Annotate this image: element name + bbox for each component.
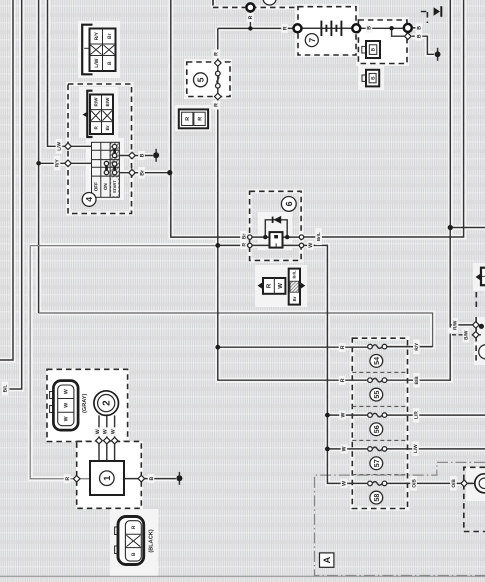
wire: B/B output of fuse 55 rising to top xyxy=(387,226,450,381)
pin: B/W at right edge xyxy=(473,332,480,339)
main fuse box5 white patch xyxy=(184,59,232,99)
battery box white patch xyxy=(295,4,359,57)
relay coil in relay unit 6 xyxy=(270,232,283,248)
svg-text:W: W xyxy=(103,429,109,434)
svg-text:W: W xyxy=(342,481,348,486)
ground: frame ground symbol top right xyxy=(434,6,442,17)
pin: L/W into switch box xyxy=(65,143,72,150)
svg-text:W: W xyxy=(110,429,116,434)
svg-text:54: 54 xyxy=(372,357,381,365)
svg-text:6: 6 xyxy=(284,201,294,206)
connector: (BLACK) coupler (R, B) xyxy=(115,517,155,565)
wire: L/W output of fuse 57 to right edge xyxy=(387,448,485,450)
svg-text:R/Y: R/Y xyxy=(55,159,61,168)
starter relay box white patch xyxy=(356,17,409,66)
svg-text:Br: Br xyxy=(139,170,145,176)
label: circled 58 fuse xyxy=(370,491,383,504)
wire: R run to relay unit 6 left xyxy=(30,245,218,247)
enclosure: rectifier 1 dashed box xyxy=(77,441,142,508)
label: circled 4 main switch xyxy=(82,193,96,207)
svg-text:57: 57 xyxy=(372,459,381,467)
wire: B stub right of relay terminal xyxy=(412,27,421,29)
node: W junction to fuse 56 xyxy=(325,413,330,418)
connector C1 white patch xyxy=(78,21,120,78)
node: diode branch left junction xyxy=(263,235,267,239)
terminal ring: battery negative xyxy=(352,24,360,32)
ground: rectifier B lead xyxy=(176,472,182,485)
wire: diode parallel branch xyxy=(265,220,287,237)
pin: magneto W lead 2 xyxy=(104,437,111,444)
connector: R-R bullet joint xyxy=(179,109,208,128)
svg-text:W: W xyxy=(64,416,70,421)
node: R junction to fuse 54 xyxy=(215,345,220,350)
svg-text:R: R xyxy=(340,345,346,349)
node: R junction at relay unit 6 feed xyxy=(215,243,220,248)
svg-text:R: R xyxy=(282,26,288,30)
label: circled 54 fuse xyxy=(370,355,383,368)
right edge component white patch xyxy=(474,317,485,365)
wire: B from battery to starter relay xyxy=(302,27,404,29)
svg-text:R: R xyxy=(241,243,247,247)
svg-text:L/W: L/W xyxy=(57,141,63,150)
svg-text:R: R xyxy=(131,525,137,529)
node: R/W junction at right edge xyxy=(479,324,484,329)
rectifier/regulator U1 xyxy=(90,461,124,495)
svg-text:2: 2 xyxy=(102,400,113,406)
wire: branch to right edge at node xyxy=(450,227,485,229)
svg-text:(GRAY): (GRAY) xyxy=(81,393,88,413)
svg-text:R: R xyxy=(185,117,191,121)
svg-text:L/R: L/R xyxy=(414,411,420,419)
wire: R/Y lead into main switch xyxy=(39,162,92,164)
node: diode branch right junction xyxy=(285,235,289,239)
wire: R/Y long run from fuse 54 to main switch branch xyxy=(39,313,433,347)
connector: main switch coupler (R/Y, Br, L/W, B) xyxy=(82,25,115,75)
svg-text:B: B xyxy=(417,26,423,30)
svg-text:B: B xyxy=(139,153,145,157)
svg-text:58: 58 xyxy=(372,494,381,502)
svg-text:START: START xyxy=(112,180,117,193)
wire: left vertical 2, B/L branch xyxy=(10,0,22,389)
pin: O/B into horn xyxy=(461,480,468,487)
pin: Br out of switch box xyxy=(129,169,136,176)
node: Br junction at switch output xyxy=(167,170,172,175)
svg-text:B: B xyxy=(107,61,113,65)
frame section marker A xyxy=(320,553,334,567)
enclosure: horn dashed box xyxy=(464,467,485,531)
wire: Br output of main switch xyxy=(119,172,169,174)
wire: R into relay unit 6 xyxy=(218,244,250,246)
wire: Br bus to relay unit 6 xyxy=(171,0,250,237)
pin: relay 6 left top xyxy=(248,235,252,239)
svg-text:B: B xyxy=(417,34,423,38)
svg-text:W: W xyxy=(95,429,101,434)
svg-text:Br: Br xyxy=(107,33,113,39)
wire: R feed to rectifier unit 1 xyxy=(30,246,90,479)
svg-text:W: W xyxy=(342,446,348,451)
svg-text:W: W xyxy=(64,389,70,394)
connector: starter relay plug (R, W, Br/L, Br) xyxy=(258,269,306,305)
svg-text:ON: ON xyxy=(103,183,108,191)
wire: B lead to ground bolt xyxy=(412,36,434,54)
enclosure: right edge component dashed box xyxy=(475,317,477,365)
pin: relay 6 right bottom xyxy=(299,243,303,247)
svg-text:O/B: O/B xyxy=(451,479,457,488)
wire: B/B continuation to top edge xyxy=(449,0,451,226)
svg-text:W: W xyxy=(277,283,284,289)
enclosure: battery 7 dashed box xyxy=(298,7,356,55)
box6 relay+diode white patch xyxy=(258,212,292,250)
terminal ring: starter relay B xyxy=(404,24,412,32)
pin: relay 6 right top xyxy=(299,235,303,239)
frame boundary chain lines xyxy=(0,575,485,577)
node: B junction after battery xyxy=(389,26,393,30)
svg-text:R: R xyxy=(65,477,71,481)
pin: B branch connector xyxy=(405,33,412,40)
svg-text:O/B: O/B xyxy=(411,479,417,488)
svg-text:Br: Br xyxy=(292,296,297,301)
main fuse element in box 5 xyxy=(216,71,221,76)
battery 7 cell plates xyxy=(320,21,322,36)
svg-text:B: B xyxy=(371,47,377,51)
svg-text:R: R xyxy=(213,52,219,56)
node: R junction at battery feed xyxy=(248,26,252,30)
wire: left vertical 1 to left edge xyxy=(0,0,13,360)
svg-text:B: B xyxy=(370,76,376,80)
svg-text:A: A xyxy=(321,556,332,563)
label: circled 6 starting circuit cut-off relay xyxy=(281,197,296,212)
enclosure: main switch 4 dashed box xyxy=(68,84,132,214)
svg-text:7: 7 xyxy=(307,37,317,42)
BLACK connector white patch xyxy=(110,509,158,577)
fuse 55 element xyxy=(368,378,373,383)
svg-text:R: R xyxy=(248,15,254,19)
svg-text:1: 1 xyxy=(102,476,112,481)
svg-text:B: B xyxy=(131,552,137,556)
wire: R/Y output of fuse 54 xyxy=(387,346,433,348)
B connector 2 white patch xyxy=(358,64,384,90)
horn at right edge xyxy=(468,474,485,493)
enclosure: starter relay dashed box xyxy=(358,20,407,64)
label: circled 5 main fuse xyxy=(194,73,208,87)
connector C2 white patch xyxy=(79,87,118,138)
pin: main fuse lower connector xyxy=(215,93,222,100)
svg-text:Br/L: Br/L xyxy=(316,232,321,241)
connector: battery B terminal couplers xyxy=(362,41,380,86)
svg-text:B/W: B/W xyxy=(464,330,470,340)
wire: Br/L from relay unit 6 to top edge xyxy=(304,0,464,237)
svg-text:R: R xyxy=(197,117,203,121)
wire: W branch to fuse 57 xyxy=(327,448,367,450)
svg-text:5: 5 xyxy=(196,77,206,82)
enclosure: dashed box cut at top edge xyxy=(213,0,296,7)
svg-text:R: R xyxy=(340,378,346,382)
node: B/B junction to right edge xyxy=(448,225,453,230)
node: R/Y junction xyxy=(36,161,41,166)
rectifier box1 white patch xyxy=(76,441,143,509)
diode D1 in relay unit 6 xyxy=(273,216,282,224)
pin: magneto W lead 1 xyxy=(96,437,103,444)
wire: R main feed from battery through main fuse to fuse 55 xyxy=(218,28,368,380)
wire: R from battery positive xyxy=(218,27,293,29)
component number circle cut at top edge xyxy=(263,0,276,5)
wire: W bus from relay unit 6 to fuse 58 xyxy=(304,245,368,483)
fuse 56 element xyxy=(368,413,373,418)
terminal ring: battery positive xyxy=(294,24,302,32)
wire: R/Y vertical feed to main switch xyxy=(38,0,40,313)
R-R joint connector white patch xyxy=(175,105,211,131)
fuse 54 element xyxy=(368,344,373,349)
svg-text:R/Y: R/Y xyxy=(414,342,420,351)
enclosure: dashed edge fragment right side xyxy=(475,292,477,311)
ground: battery negative bolt xyxy=(435,48,441,61)
pin: R into rectifier 1 xyxy=(73,476,80,483)
label: circled 57 fuse xyxy=(370,457,383,470)
component circle cut at right edge xyxy=(479,345,485,359)
wire: B branch to pin xyxy=(392,28,405,36)
pin: magneto W lead 3 xyxy=(111,437,118,444)
wire: R/W branch to right edge component xyxy=(450,324,479,326)
pin: R/Y into switch box xyxy=(65,160,72,167)
fuse 58 element xyxy=(368,481,373,486)
enclosure: main fuse 5 dashed box xyxy=(187,62,230,97)
pin: B out of rectifier 1 xyxy=(138,475,145,482)
wire: L/W lead into main switch xyxy=(48,0,92,146)
svg-text:Br: Br xyxy=(105,125,110,130)
terminal ring: upper connector xyxy=(246,3,254,11)
svg-text:W: W xyxy=(64,403,70,408)
svg-text:R: R xyxy=(266,283,273,288)
top right ground dashes xyxy=(421,12,428,24)
ground: main switch B lead xyxy=(153,149,159,162)
svg-text:Br: Br xyxy=(241,234,247,240)
label: circled 56 fuse xyxy=(370,423,383,436)
svg-text:R/W: R/W xyxy=(93,97,98,107)
svg-text:L/W: L/W xyxy=(413,444,419,453)
svg-text:56: 56 xyxy=(372,425,381,433)
svg-text:W: W xyxy=(308,243,314,248)
wire: B output of rectifier 1 to ground xyxy=(124,478,176,480)
wire: R branch to fuse 54 xyxy=(218,346,368,348)
svg-text:B: B xyxy=(367,26,373,30)
svg-text:4: 4 xyxy=(84,197,94,202)
magneto box2 white patch xyxy=(46,368,129,442)
enclosure: relay unit 6 dashed box xyxy=(250,191,302,260)
enclosure: fuse block dashed box xyxy=(352,338,407,508)
connector: coupler cut at right edge xyxy=(473,263,485,291)
svg-text:R/W: R/W xyxy=(453,320,459,330)
svg-text:OFF: OFF xyxy=(94,182,99,191)
svg-text:B/L: B/L xyxy=(3,385,9,393)
connector: coupler inside main switch box 4 (R/W, B/W, R, Br) xyxy=(83,91,114,137)
A.C. magneto 2 with (GRAY) coupler xyxy=(50,381,119,431)
pin: main fuse upper connector xyxy=(215,60,222,67)
label: circled 55 fuse xyxy=(370,388,383,401)
enclosure: A.C. magneto 2 dashed box xyxy=(47,369,128,441)
svg-text:L/W: L/W xyxy=(94,58,100,67)
wire: W branch to fuse 56 xyxy=(327,414,367,416)
fuse 57 element xyxy=(368,447,373,452)
relay connector assembly white patch xyxy=(255,265,307,307)
wire: L/R output of fuse 56 to right edge xyxy=(387,414,485,416)
wire: O/B output of fuse 58 to horn xyxy=(387,482,473,484)
node: W junction to fuse 57 xyxy=(325,447,330,452)
main switch grid white patch xyxy=(86,138,124,200)
svg-text:B: B xyxy=(149,476,155,480)
svg-text:R: R xyxy=(213,103,219,107)
svg-text:B/W: B/W xyxy=(105,97,110,107)
wire: relay coil top conductor xyxy=(252,236,299,238)
svg-text:R/Y: R/Y xyxy=(94,31,100,40)
wire: B/W dashed lead xyxy=(452,334,481,336)
horn white patch xyxy=(466,467,485,501)
main switch 4 contact table (OFF/ON/START) xyxy=(92,142,120,197)
label: circled 7 battery xyxy=(305,34,318,47)
svg-text:W: W xyxy=(340,413,346,418)
pin: B out of switch box xyxy=(129,152,136,159)
wire: relay coil bottom conductor xyxy=(252,244,299,246)
svg-text:Br/L: Br/L xyxy=(292,270,297,279)
wire: B output of main switch to ground xyxy=(119,155,152,157)
wire: three W leads from magneto 2 to rectifier 1 xyxy=(99,415,115,461)
svg-text:B/B: B/B xyxy=(414,376,420,385)
wire: R pigtail to upper connector terminal xyxy=(249,7,251,28)
svg-text:55: 55 xyxy=(372,391,381,399)
pin: relay 6 left bottom xyxy=(248,243,252,247)
pin: R/W at right edge xyxy=(473,322,480,329)
svg-text:(BLACK): (BLACK) xyxy=(148,529,155,552)
